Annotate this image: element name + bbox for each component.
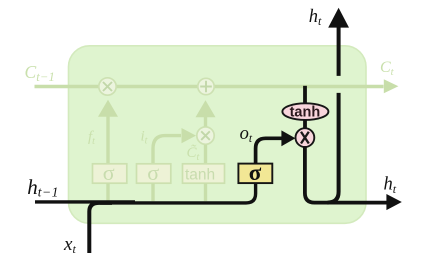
- svg-text:σ: σ: [147, 160, 159, 185]
- svg-text:tanh: tanh: [185, 167, 215, 184]
- wire main bottom line rising into output sigma gate: [100, 184, 256, 203]
- cell state line C (faded): [35, 85, 384, 88]
- wire C line down to tanh: [303, 86, 307, 104]
- small multiply gate i*C~ (faded): [197, 127, 214, 144]
- sigma box 1 forget gate (faded): [93, 164, 127, 183]
- svg-text:xt: xt: [63, 234, 76, 256]
- wire below tanh box to bottom line (faded): [204, 183, 207, 201]
- tanh box candidate (faded): [183, 164, 225, 183]
- wire x_t up and main bottom line into sigma gate: [89, 203, 112, 253]
- forget-gate wire up to multiply (faded): [106, 116, 109, 164]
- wire below sigma2 to bottom line (faded): [151, 183, 154, 201]
- svg-text:tanh: tanh: [290, 105, 321, 121]
- svg-text:ht: ht: [309, 7, 322, 28]
- wire below sigma1 to bottom line (faded): [106, 183, 109, 201]
- svg-text:Ct−1: Ct−1: [25, 62, 55, 84]
- wire h_t-1 input: [35, 200, 135, 203]
- LSTM cell body: [69, 46, 367, 224]
- wire sigma to multiply with arrow (o_t): [256, 138, 282, 163]
- svg-text:ht−1: ht−1: [27, 175, 59, 200]
- svg-text:σ: σ: [103, 160, 115, 185]
- sigma box output gate (highlighted): [238, 164, 272, 184]
- tanh op ellipse: [282, 103, 328, 120]
- wire tanh-box to small multiply (faded): [204, 145, 207, 164]
- svg-text:ht: ht: [384, 175, 397, 196]
- wire h_t top above C crossing: [337, 27, 341, 76]
- svg-text:Ct: Ct: [380, 59, 395, 78]
- wire branch up to h_t top (below C crossing): [328, 93, 339, 203]
- add gate on C line (faded): [198, 78, 214, 94]
- h_t right arrowhead: [386, 194, 401, 210]
- arrow small multiply to add gate (faded): [204, 117, 207, 127]
- multiply op (output): [296, 128, 315, 147]
- wire multiply down and right to h_t output: [305, 147, 387, 203]
- wire tanh to multiply: [303, 120, 307, 129]
- input-gate wire with arrow into small multiply (faded): [153, 136, 181, 164]
- h_t top arrowhead: [328, 8, 349, 28]
- cell state output arrowhead C_t (faded): [384, 79, 399, 93]
- sigma box 2 input gate (faded): [137, 164, 171, 183]
- multiply gate on C line (faded): [99, 78, 116, 95]
- svg-text:σ: σ: [249, 160, 262, 185]
